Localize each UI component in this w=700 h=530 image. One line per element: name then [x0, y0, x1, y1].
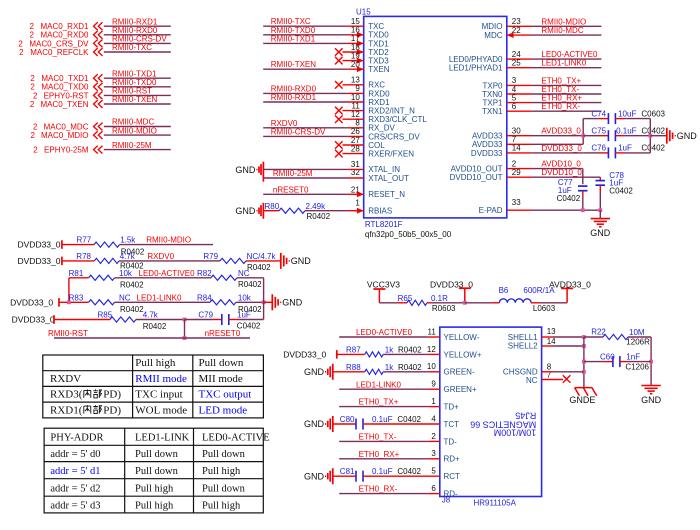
wire B6 to AVDD33_0 [539, 302, 567, 304]
wire RMII0-RXD1 [104, 25, 171, 27]
svg-text:nRESET0: nRESET0 [205, 329, 241, 338]
capacitor C78 1uF [599, 177, 601, 181]
svg-text:RD+: RD+ [444, 455, 461, 464]
wire SHELL1 to R22 [542, 336, 553, 338]
resistor R84 10k pull-down on LED1-LINK0 [210, 300, 236, 305]
svg-text:Pull down: Pull down [135, 466, 179, 477]
svg-text:CHSGND: CHSGND [503, 367, 538, 376]
svg-text:1.5k: 1.5k [120, 236, 136, 245]
wire net ETH0_RX- to J8 pin 6 [339, 493, 428, 495]
wire net ETH0_TX- to J8 pin 2 [339, 440, 428, 442]
wire R65 to DVDD33_0 node [432, 302, 465, 304]
svg-text:addr = 5' d1: addr = 5' d1 [50, 466, 100, 477]
svg-text:RMII0-TXD1: RMII0-TXD1 [271, 34, 316, 43]
svg-text:E-PAD: E-PAD [479, 206, 503, 215]
svg-text:Pull high: Pull high [202, 500, 241, 511]
svg-text:DVDD33: DVDD33 [471, 149, 503, 158]
svg-text:0.1uF: 0.1uF [372, 415, 393, 424]
wire RMII0-MDIO [104, 134, 171, 136]
capacitor C81 0.1uF [333, 475, 356, 477]
wire net RMII0-TXC to pin 15 [263, 25, 347, 27]
ground GND bar right of C75 [650, 135, 666, 137]
wire net RMII0-25M to XTAL_OUT [263, 177, 347, 179]
wire net nRESET0 to RESET_N [263, 193, 347, 195]
svg-text:3: 3 [431, 449, 436, 458]
no-connect X on J8 pin 7 [542, 379, 563, 381]
svg-text:LED1-LINK0: LED1-LINK0 [356, 380, 401, 389]
svg-text:14: 14 [512, 144, 521, 153]
wire R85 to C79 [136, 319, 185, 321]
svg-text:GND: GND [304, 419, 325, 429]
svg-text:TD+: TD+ [444, 403, 460, 412]
svg-text:RMII0-TXEN: RMII0-TXEN [112, 95, 158, 104]
wire RMII0-MDC [104, 126, 171, 128]
wire net RXDV0 row2 [119, 260, 204, 262]
svg-text:R81: R81 [69, 269, 84, 278]
svg-text:5: 5 [431, 467, 436, 476]
wire E-PAD to ground [507, 209, 532, 211]
svg-text:2: 2 [30, 131, 35, 140]
svg-text:6: 6 [512, 102, 517, 111]
table PHY address straps [44, 428, 263, 513]
svg-text:addr = 5' d3: addr = 5' d3 [50, 500, 100, 511]
svg-text:PHY-ADDR: PHY-ADDR [50, 433, 103, 444]
svg-text:GND: GND [304, 471, 325, 481]
svg-text:C81: C81 [340, 467, 355, 476]
svg-text:Pull high: Pull high [202, 466, 241, 477]
svg-text:TCT: TCT [444, 420, 460, 429]
svg-text:Pull down: Pull down [135, 449, 179, 460]
wire R82 to GND bus [237, 277, 264, 279]
svg-text:LED1-LINK: LED1-LINK [135, 433, 190, 444]
wire net ETH0_RX- from pin 6 [507, 110, 532, 112]
svg-text:R0402: R0402 [398, 363, 422, 372]
wire net ETH0_RX+ from pin 5 [507, 102, 532, 104]
svg-text:C76: C76 [591, 144, 606, 153]
no-connect X on pin 18 [343, 51, 364, 53]
svg-text:MDIO: MDIO [482, 22, 503, 31]
svg-text:C0402: C0402 [397, 415, 421, 424]
svg-text:C0402: C0402 [641, 126, 665, 135]
svg-text:1nF: 1nF [626, 353, 640, 362]
wire RMII0-TXC [104, 51, 171, 53]
svg-text:12: 12 [427, 345, 436, 354]
svg-text:C0402: C0402 [237, 322, 261, 331]
svg-text:RMII0-MDC: RMII0-MDC [541, 26, 583, 35]
connector J8 HR911105A RJ45 body [440, 327, 542, 496]
svg-text:14: 14 [547, 337, 556, 346]
op-amp U15 RTL8201F PHY IC body [364, 16, 507, 218]
resistor R85 4.7k on reset RC [54, 319, 110, 321]
svg-text:SHELL2: SHELL2 [508, 342, 538, 351]
svg-text:R65: R65 [398, 294, 413, 303]
svg-text:R78: R78 [76, 252, 91, 261]
svg-text:RBIAS: RBIAS [368, 206, 392, 215]
svg-text:PD): PD) [103, 389, 121, 401]
wire net ETH0_RX+ to J8 pin 3 [339, 458, 428, 460]
wire net RXDV0 to pin 8 [263, 127, 347, 129]
svg-text:R79: R79 [203, 252, 218, 261]
svg-text:TXN1: TXN1 [482, 107, 503, 116]
svg-text:0.1uF: 0.1uF [372, 467, 393, 476]
capacitor C79 1uF reset RC [212, 319, 223, 321]
svg-text:0.1uF: 0.1uF [616, 126, 637, 135]
capacitor C74 10uF [583, 118, 599, 120]
svg-text:R87: R87 [346, 346, 361, 355]
wire net ETH0_TX+ from pin 3 [507, 84, 532, 86]
wire cap bus vertical right [649, 119, 651, 153]
svg-text:C0402: C0402 [641, 144, 665, 153]
ground GND bar row4 [271, 294, 273, 310]
wire net RMII0-MDC from pin 22 [507, 34, 532, 36]
svg-text:RESET_N: RESET_N [368, 190, 405, 199]
svg-text:MDC: MDC [484, 31, 502, 40]
svg-text:GREEN+: GREEN+ [444, 385, 477, 394]
svg-text:33: 33 [512, 198, 521, 207]
capacitor C75 0.1uF [583, 135, 599, 137]
svg-text:C60: C60 [600, 353, 615, 362]
svg-text:GND: GND [282, 298, 303, 308]
svg-text:TXEN: TXEN [368, 65, 390, 74]
table modes [43, 355, 264, 418]
svg-text:1uF: 1uF [618, 144, 632, 153]
wire R22 to GND corner [628, 336, 651, 338]
svg-text:1uF: 1uF [237, 311, 251, 320]
svg-text:RMII0-TXEN: RMII0-TXEN [271, 60, 317, 69]
svg-text:ETH0_TX+: ETH0_TX+ [359, 398, 399, 407]
wire net LED0-ACTIVE0 from pin 24 [507, 58, 532, 60]
svg-text:TD-: TD- [444, 437, 458, 446]
svg-text:RMII0-MDIO: RMII0-MDIO [541, 17, 586, 26]
svg-text:R0402: R0402 [398, 346, 422, 355]
svg-text:DVDD33_0: DVDD33_0 [12, 315, 55, 325]
svg-text:2: 2 [431, 432, 436, 441]
svg-text:ETH0_RX-: ETH0_RX- [541, 102, 580, 111]
svg-text:RXD3(: RXD3( [50, 389, 83, 401]
svg-text:GND: GND [235, 206, 256, 216]
svg-text:Pull down: Pull down [199, 357, 244, 369]
power AVDD33_0 port power row [566, 288, 568, 302]
svg-text:28: 28 [351, 144, 360, 153]
svg-text:NC: NC [119, 293, 131, 302]
svg-text:10uF: 10uF [618, 109, 636, 118]
svg-text:R0402: R0402 [143, 322, 167, 331]
svg-text:R0603: R0603 [432, 304, 456, 313]
resistor R87 1k [337, 353, 365, 355]
wire DVDD33 link rows 3-4 [68, 278, 70, 303]
wire RMII0-TXD1 [104, 77, 171, 79]
wire shield bus vertical [583, 337, 585, 388]
svg-text:RMII0-TXC: RMII0-TXC [112, 43, 152, 52]
svg-text:RXDV: RXDV [50, 373, 81, 385]
svg-text:C1206: C1206 [625, 363, 649, 372]
capacitor C77 1uF [582, 169, 584, 185]
svg-text:2: 2 [512, 159, 517, 168]
wire C79 to GND bus [239, 319, 264, 321]
wire R84 to GND [236, 301, 264, 303]
svg-text:RMII0-RXD1: RMII0-RXD1 [271, 93, 317, 102]
svg-text:RMII0-MDIO: RMII0-MDIO [146, 236, 191, 245]
svg-text:1: 1 [431, 397, 436, 406]
resistor R81 10k pull-up on LED0-ACTIVE0 [69, 277, 89, 279]
svg-text:TXC output: TXC output [199, 389, 252, 401]
svg-text:RJ45: RJ45 [515, 411, 536, 421]
svg-text:PD): PD) [103, 404, 121, 416]
svg-text:GND: GND [235, 165, 256, 175]
wire net DVDD33_0 from pin 14 [507, 152, 532, 154]
svg-text:MAC0_REFCLK: MAC0_REFCLK [30, 48, 89, 57]
svg-text:2.49k: 2.49k [306, 202, 327, 211]
wire RMII0-RST [104, 94, 171, 96]
svg-text:GREEN-: GREEN- [444, 368, 475, 377]
svg-text:MAC0_MDIO: MAC0_MDIO [41, 131, 89, 140]
resistor R83 NC pull-up on LED1-LINK0 [59, 301, 89, 303]
svg-text:qfn32p0_50b5_00x5_00: qfn32p0_50b5_00x5_00 [365, 230, 452, 239]
svg-text:C0603: C0603 [641, 109, 665, 118]
no-connect X on pin 11 [343, 110, 364, 112]
resistor R22 10M [603, 334, 628, 339]
svg-text:R80: R80 [265, 202, 280, 211]
svg-text:2: 2 [30, 100, 35, 109]
svg-text:LED0-ACTIVE0: LED0-ACTIVE0 [139, 269, 196, 278]
svg-text:C0402: C0402 [397, 467, 421, 476]
svg-text:R0402: R0402 [120, 305, 144, 314]
svg-text:Pull down: Pull down [202, 449, 246, 460]
svg-text:2: 2 [33, 146, 38, 155]
svg-text:R0402: R0402 [120, 281, 144, 290]
svg-text:LED1-LINK0: LED1-LINK0 [137, 293, 182, 302]
no-connect X on pin 13 [343, 84, 364, 86]
wire CHSGND to shield bus [542, 371, 553, 373]
resistor R88 1k [333, 371, 365, 373]
ground GND below E-PAD [599, 210, 601, 218]
svg-text:EPHY0-25M: EPHY0-25M [44, 146, 89, 155]
svg-text:R84: R84 [197, 293, 212, 302]
svg-text:C75: C75 [591, 126, 606, 135]
svg-text:11: 11 [427, 327, 436, 336]
svg-text:SHELL1: SHELL1 [508, 333, 538, 342]
svg-text:29: 29 [512, 168, 521, 177]
svg-text:DVDD10_OUT: DVDD10_OUT [450, 173, 503, 182]
capacitor C80 0.1uF [333, 423, 356, 425]
no-connect X on pin 28 [343, 153, 364, 155]
wire RMII0-25M [104, 149, 171, 151]
svg-text:LED0-ACTIVE0: LED0-ACTIVE0 [356, 328, 413, 337]
svg-text:TXC input: TXC input [135, 389, 182, 401]
svg-text:ETH0_RX-: ETH0_RX- [359, 485, 398, 494]
svg-text:GND: GND [304, 367, 325, 377]
svg-text:C80: C80 [340, 415, 355, 424]
svg-text:4: 4 [431, 414, 436, 423]
svg-text:RCT: RCT [444, 472, 461, 481]
svg-text:DVDD33_0: DVDD33_0 [10, 297, 53, 307]
ground GND earth below R22 [641, 385, 660, 387]
svg-text:R83: R83 [69, 293, 84, 302]
wire RMII0-RXD0 [104, 34, 171, 36]
svg-text:9: 9 [431, 380, 436, 389]
wire net RMII0-TXEN to pin 20 [263, 68, 347, 70]
svg-text:DVDD33_0: DVDD33_0 [541, 144, 582, 153]
svg-text:GNDE: GNDE [569, 395, 595, 405]
svg-text:1k: 1k [385, 346, 394, 355]
capacitor C76 1uF [583, 152, 599, 154]
svg-text:10k: 10k [119, 269, 133, 278]
svg-text:2: 2 [19, 48, 24, 57]
wire net RMII0-MDIO row1 [120, 244, 214, 246]
svg-text:0.1R: 0.1R [431, 294, 448, 303]
svg-text:C79: C79 [198, 311, 213, 320]
svg-text:R88: R88 [346, 363, 361, 372]
resistor R77 1.5k pull-up on RMII0-MDIO [62, 244, 94, 246]
svg-text:RXER/FXEN: RXER/FXEN [368, 150, 414, 159]
svg-text:R77: R77 [77, 236, 92, 245]
wire net RMII0-RXD0 to pin 9 [263, 92, 347, 94]
wire XTAL_IN to GND [263, 168, 347, 170]
resistor R80 2.49k [263, 210, 279, 212]
svg-text:HR911105A: HR911105A [474, 499, 517, 508]
svg-text:13: 13 [547, 327, 556, 336]
svg-text:nRESET0: nRESET0 [273, 186, 309, 195]
svg-text:GND: GND [677, 131, 698, 141]
svg-text:B6: B6 [499, 286, 509, 295]
ground GND bar row2 [280, 253, 282, 269]
svg-text:RMII0-MDIO: RMII0-MDIO [112, 126, 157, 135]
wire R87 to J8 pin 12 [383, 353, 428, 355]
svg-text:addr = 5' d2: addr = 5' d2 [50, 484, 100, 495]
svg-text:1206R: 1206R [626, 338, 650, 347]
wire net RMII0-RXD1 to pin 10 [263, 101, 347, 103]
svg-text:10k: 10k [238, 293, 252, 302]
svg-text:GND: GND [590, 228, 611, 238]
svg-text:1: 1 [355, 198, 360, 207]
no-connect X on pin 27 [343, 144, 364, 146]
wire RMII0-TXD0 [104, 86, 171, 88]
wire R79 to GND [246, 260, 280, 262]
svg-text:RMII0-25M: RMII0-25M [273, 169, 313, 178]
svg-text:XTAL_OUT: XTAL_OUT [368, 174, 409, 183]
no-connect X on pin 19 [343, 60, 364, 62]
wire net RMII0-MDIO from pin 23 [507, 25, 532, 27]
svg-text:AVDD33_0: AVDD33_0 [541, 127, 581, 136]
wire net DVDD10_0 from pin 29 [507, 176, 532, 178]
wire net LED1-LINK0 to J8 pin 9 [339, 388, 428, 390]
wire R88 to J8 pin 10 [383, 371, 428, 373]
wire net LED1-LINK0 from pin 25 [507, 67, 532, 69]
svg-text:C74: C74 [591, 109, 606, 118]
svg-text:DVDD33_0: DVDD33_0 [18, 240, 61, 250]
svg-text:addr = 5' d0: addr = 5' d0 [50, 449, 100, 460]
wire net LED1-LINK0 row4 [115, 301, 210, 303]
svg-text:YELLOW-: YELLOW- [444, 333, 480, 342]
wire SHELL2 to shield bus [542, 345, 553, 347]
svg-text:U15: U15 [356, 8, 371, 17]
svg-text:4.7k: 4.7k [120, 252, 136, 261]
wire net AVDD33_0 from pin 30 [507, 135, 532, 137]
capacitor C60 1nF [584, 361, 605, 363]
wire net LED0-ACTIVE0 to J8 pin 11 [339, 336, 428, 338]
wire net LED0-ACTIVE0 row3 [115, 277, 211, 279]
svg-text:Pull down: Pull down [202, 484, 246, 495]
svg-text:YELLOW+: YELLOW+ [444, 350, 482, 359]
svg-text:NC/4.7k: NC/4.7k [247, 252, 277, 261]
svg-text:10M: 10M [629, 328, 645, 337]
svg-text:R85: R85 [98, 311, 113, 320]
svg-text:RD-: RD- [444, 490, 459, 499]
svg-text:6: 6 [431, 484, 436, 493]
svg-text:R0402: R0402 [307, 212, 331, 221]
svg-text:MAC0_TXEN: MAC0_TXEN [40, 100, 88, 109]
wire RMII0-TXEN [104, 103, 171, 105]
svg-text:Pull high: Pull high [135, 357, 176, 369]
wire net RMII0-TXD0 to pin 16 [263, 34, 347, 36]
svg-text:23: 23 [512, 17, 521, 26]
wire net RMII0-CRS-DV to pin 26 [263, 135, 347, 137]
svg-text:R82: R82 [197, 269, 212, 278]
svg-text:25: 25 [512, 59, 521, 68]
svg-text:R0402: R0402 [238, 280, 262, 289]
resistor R65 0.1R [379, 302, 397, 304]
resistor R79 NC/4.7k pull-down on RXDV0 [220, 258, 246, 263]
wire RBIAS to R80 [305, 210, 348, 212]
wire net RMII0-TXD1 to pin 17 [263, 42, 347, 44]
svg-text:10: 10 [427, 362, 436, 371]
svg-text:RXD1(: RXD1( [50, 404, 83, 416]
svg-text:L0603: L0603 [533, 304, 556, 313]
resistor R82 NC pull-down on LED0-ACTIVE0 [211, 275, 237, 280]
svg-text:Pull high: Pull high [135, 500, 174, 511]
wire GND bus vertical rows3-5 [263, 278, 265, 320]
svg-text:RTL8201F: RTL8201F [365, 220, 403, 229]
svg-text:R22: R22 [591, 327, 606, 336]
wire net AVDD10_0 from pin 2 [507, 168, 532, 170]
resistor R78 4.7k pull-up on RXDV0 [62, 260, 94, 262]
svg-text:RMII0-CRS-DV: RMII0-CRS-DV [271, 127, 326, 136]
svg-text:AVDD33_0: AVDD33_0 [549, 279, 591, 289]
svg-text:GND: GND [291, 256, 312, 266]
wire net ETH0_TX- from pin 4 [507, 93, 532, 95]
svg-text:LED1-LINK0: LED1-LINK0 [541, 59, 586, 68]
svg-text:R0402: R0402 [247, 263, 271, 272]
svg-text:1k: 1k [385, 363, 394, 372]
ferrite bead B6 600R/1A [465, 302, 492, 304]
svg-text:RMII0-25M: RMII0-25M [112, 141, 152, 150]
ground GNDE chassis [575, 387, 592, 389]
svg-text:C0402: C0402 [557, 194, 581, 203]
wire reset node down [184, 320, 186, 339]
svg-text:WOL mode: WOL mode [135, 404, 187, 416]
no-connect X on pin 12 [343, 118, 364, 120]
wire C80 to J8 pin 4 TCT [371, 423, 440, 425]
svg-text:C0402: C0402 [609, 186, 633, 195]
svg-text:NC: NC [238, 269, 250, 278]
svg-text:Pull high: Pull high [135, 484, 174, 495]
svg-text:LED0-ACTIVE: LED0-ACTIVE [202, 433, 270, 444]
svg-text:10M/100M: 10M/100M [494, 428, 537, 438]
wire RMII0-CRS-DV [104, 42, 171, 44]
wire AVDD33 bus vertical left [582, 119, 584, 145]
wire C81 to J8 pin 5 RCT [371, 475, 440, 477]
svg-text:RXDV0: RXDV0 [147, 252, 174, 261]
svg-text:GND: GND [641, 395, 662, 405]
svg-text:RMII0-RST: RMII0-RST [48, 329, 88, 338]
svg-text:LED1/PHYAD1: LED1/PHYAD1 [449, 64, 503, 73]
svg-text:NC: NC [526, 376, 538, 385]
svg-text:LED mode: LED mode [199, 404, 248, 416]
svg-text:ETH0_RX+: ETH0_RX+ [359, 450, 400, 459]
wire net RMII0-RST / nRESET0 [54, 337, 250, 339]
svg-text:MII mode: MII mode [199, 373, 243, 385]
wire net ETH0_TX+ to J8 pin 1 [339, 406, 428, 408]
